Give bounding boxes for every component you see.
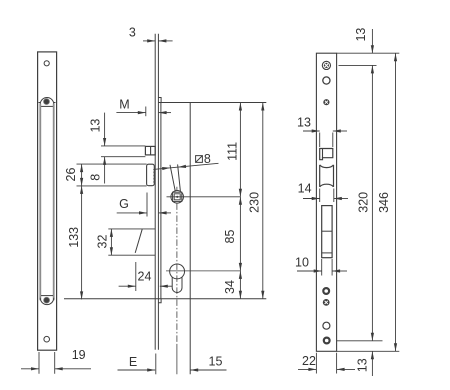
ext line faceplate top right xyxy=(337,52,400,54)
dim 13 bottom right line xyxy=(371,351,373,376)
dim G ext tick xyxy=(146,193,148,217)
svg-text:G: G xyxy=(119,197,129,211)
arrows dim 13 width xyxy=(312,129,320,132)
dim 13 width line left xyxy=(303,130,320,132)
right faceplate outline xyxy=(316,53,336,351)
svg-text:13: 13 xyxy=(297,115,311,129)
hook slot opening in faceplate xyxy=(147,164,155,186)
dim 34 line xyxy=(239,271,241,299)
dim 24 ext line xyxy=(135,262,137,291)
dim G line right xyxy=(159,212,171,214)
arrows dim 26 xyxy=(80,164,83,172)
dim 14 line left xyxy=(303,198,320,200)
dim 14 line right xyxy=(334,198,348,200)
latch bolt inner line xyxy=(150,146,152,155)
svg-text:3: 3 xyxy=(129,25,136,39)
svg-text:8: 8 xyxy=(89,174,103,181)
dim 346 line xyxy=(395,53,397,351)
square 8 leader line xyxy=(153,163,218,169)
svg-text:15: 15 xyxy=(209,355,223,369)
arrows dim 230 xyxy=(261,103,264,111)
hook slot bottom ext line xyxy=(77,185,147,187)
dim 111 line xyxy=(239,103,241,197)
svg-text:133: 133 xyxy=(67,227,81,248)
dim 13 width ext lines xyxy=(320,133,333,148)
follower horizontal centerline xyxy=(167,196,241,198)
dim M line right xyxy=(159,112,171,114)
deadbolt top line xyxy=(108,228,155,230)
case bottom notch xyxy=(158,299,161,303)
left bar rod right line xyxy=(53,104,55,300)
dim 85 line xyxy=(239,197,241,271)
drive rod line B xyxy=(178,164,181,191)
dim 13 vertical line xyxy=(104,113,106,146)
faceplate bottom ext line xyxy=(155,354,157,375)
follower circle xyxy=(171,191,184,204)
svg-text:13: 13 xyxy=(356,358,370,372)
arrow dim 13 down xyxy=(103,138,106,146)
left bar outer rect xyxy=(38,52,57,350)
drive rod line A xyxy=(170,165,175,192)
dim 3 line left xyxy=(143,40,155,42)
dim 230 line xyxy=(262,103,264,299)
svg-text:14: 14 xyxy=(298,182,312,196)
cylinder circle xyxy=(170,264,185,279)
svg-text:22: 22 xyxy=(302,354,316,368)
svg-text:111: 111 xyxy=(226,142,240,161)
hook slot hidden dashed line xyxy=(153,172,155,186)
follower inner square xyxy=(174,194,180,200)
arrow dim 320 bottom xyxy=(371,333,374,341)
deadbolt slanted face xyxy=(135,229,142,253)
hole h4 ring xyxy=(323,288,329,294)
deadbolt front inner line 1 xyxy=(322,230,332,232)
case bottom edge xyxy=(64,298,266,300)
case top notch xyxy=(158,98,161,103)
case front edge xyxy=(160,103,162,299)
arrows dim 133 xyxy=(80,186,83,194)
svg-text:320: 320 xyxy=(357,192,371,213)
cylinder horizontal centerline xyxy=(166,270,240,272)
hole h3 screw disc xyxy=(323,99,329,105)
arrows square 8 xyxy=(162,166,170,170)
svg-text:E: E xyxy=(129,355,137,369)
svg-text:32: 32 xyxy=(95,235,109,249)
deadbolt front inner line 2 xyxy=(322,252,332,254)
svg-text:230: 230 xyxy=(247,192,261,213)
svg-text:M: M xyxy=(119,98,129,112)
follower top centerline stub xyxy=(176,187,178,191)
dim 8 vertical line xyxy=(104,157,106,184)
arrows dim 13 top right xyxy=(371,45,374,53)
svg-text:85: 85 xyxy=(223,230,237,244)
dim 10 line left xyxy=(297,270,322,272)
arrows dim 19 xyxy=(31,367,39,370)
left bar pin bottom xyxy=(44,297,50,303)
dim 15 line xyxy=(190,369,226,371)
arrows dim 10 xyxy=(314,269,322,272)
svg-text:8: 8 xyxy=(204,152,211,166)
arrows dim 346 xyxy=(394,53,397,61)
dim 22 ext lines xyxy=(316,353,336,374)
latch bolt side view xyxy=(145,146,155,155)
arrow dim 13 bottom right xyxy=(371,351,374,359)
hole h6 xyxy=(323,322,330,329)
ext line hole h1 xyxy=(339,64,377,66)
svg-text:19: 19 xyxy=(72,348,86,362)
dim M line left xyxy=(116,112,145,114)
cylinder lower lobe xyxy=(172,277,182,293)
hole h1 screw disc xyxy=(324,63,329,68)
latch top ext line xyxy=(101,145,145,147)
hole h5 white cross xyxy=(325,301,328,304)
square 8 symbol xyxy=(196,156,203,163)
dim 19 line left xyxy=(21,368,39,370)
arrows dim 3 xyxy=(147,39,155,42)
hole h1 outer ring xyxy=(322,61,330,69)
dim 3 line right xyxy=(158,40,172,42)
dim G line left xyxy=(117,212,147,214)
left bar rod left line xyxy=(39,104,41,300)
faceplate edge strip right line xyxy=(157,34,159,350)
svg-text:34: 34 xyxy=(223,280,237,294)
hole h7 ring xyxy=(324,338,330,344)
arrow dim 8 up xyxy=(103,157,106,165)
svg-text:26: 26 xyxy=(64,168,78,182)
arrows dim 34 xyxy=(239,271,242,279)
left bar slot bottom arc xyxy=(40,298,54,305)
dim 13 top right line xyxy=(371,29,373,53)
hole h3 white cross xyxy=(325,101,328,104)
dim 32 vertical line xyxy=(110,229,112,255)
hook slot top ext line xyxy=(77,163,147,165)
svg-text:13: 13 xyxy=(354,28,368,42)
left bar bottom hole xyxy=(44,336,50,342)
dim 133 vertical line xyxy=(81,186,83,300)
arrows dim 85 xyxy=(239,197,242,205)
vertical dash-dot centerline xyxy=(176,203,178,345)
hook opening top curve xyxy=(320,165,334,168)
arrows dim 24 xyxy=(128,285,136,288)
latch front inner line xyxy=(322,149,324,158)
dim 14 ext lines xyxy=(320,189,334,203)
ext line faceplate bottom right xyxy=(337,350,400,352)
faceplate edge strip left line xyxy=(154,34,156,350)
hole h2 xyxy=(323,77,330,84)
latch front view opening xyxy=(320,149,333,160)
hook opening bottom curve xyxy=(320,184,334,187)
dim 22 line left xyxy=(298,368,316,370)
arrows dim 32 xyxy=(110,229,113,237)
hole h1 white cross xyxy=(325,64,328,67)
dim 320 line xyxy=(371,65,373,340)
left bar slot top arc xyxy=(40,98,54,105)
latch bottom ext line xyxy=(101,156,145,158)
left bar slot top ticks xyxy=(39,102,56,104)
case right edge with extension xyxy=(189,103,191,375)
dim M ext tick xyxy=(145,107,147,117)
svg-text:10: 10 xyxy=(295,256,309,270)
ext line hole h7 xyxy=(337,340,383,342)
dim 24 line right xyxy=(160,285,172,287)
dim E line xyxy=(118,369,156,371)
dim 24 line left xyxy=(119,285,136,287)
dim 13 width line right xyxy=(333,130,347,132)
svg-text:24: 24 xyxy=(138,270,152,284)
arrows dim 111 xyxy=(239,103,242,111)
deadbolt bottom line xyxy=(108,254,155,256)
arrows dim 14 xyxy=(312,197,320,200)
hole h5 screw disc xyxy=(323,299,330,306)
dim 26 vertical line xyxy=(81,164,83,186)
dim 10 line right xyxy=(332,270,347,272)
arrows dim M xyxy=(138,111,146,114)
arrow dim E xyxy=(147,368,155,371)
left bar top hole xyxy=(44,61,49,66)
arrow dim 15 xyxy=(190,368,198,371)
dim 10 ext lines xyxy=(322,259,332,276)
dim 19 line right xyxy=(55,368,91,370)
follower square xyxy=(173,192,182,201)
dim 22 line right xyxy=(337,368,355,370)
svg-text:13: 13 xyxy=(88,119,102,133)
hook opening front view right edge xyxy=(333,165,335,187)
arrows dim 22 xyxy=(308,368,316,371)
deadbolt opening front view xyxy=(322,206,332,258)
left bar bottom chord xyxy=(41,295,53,297)
dim 19 ext lines xyxy=(39,352,55,374)
follower center dot xyxy=(176,196,178,198)
left bar pin top xyxy=(44,99,50,105)
left bar top chord xyxy=(41,105,53,107)
hook opening front view left edge xyxy=(319,165,321,187)
arrows dim G xyxy=(139,211,147,214)
case top edge xyxy=(158,102,266,104)
svg-text:346: 346 xyxy=(377,192,391,213)
